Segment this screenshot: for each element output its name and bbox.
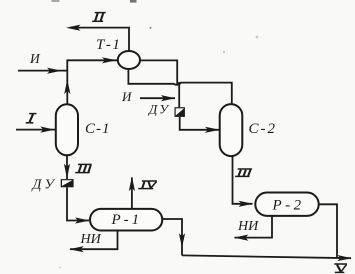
arrowhead left НИ 1 — [69, 246, 84, 252]
vessel P-2 (horizontal stadium) — [255, 193, 318, 216]
speck near T-1 — [223, 51, 225, 53]
arrowhead right V end — [337, 255, 352, 261]
wire valve to P-1 — [67, 187, 89, 220]
speck near II line — [150, 27, 152, 29]
arrowhead И right before corner — [47, 68, 62, 74]
wire P-1 bottom to НИ — [70, 231, 118, 250]
arrowhead I into C-1 — [40, 127, 55, 133]
vessel T-1 (circle) — [118, 51, 140, 69]
svg-text:С-1: С-1 — [85, 121, 111, 137]
label numeral III near C-2 — [235, 169, 252, 176]
valve ДУ 2 (before C-2) — [175, 107, 185, 117]
label numeral I — [26, 114, 37, 123]
wire P-2 right output down to collector — [319, 204, 338, 258]
valve ДУ 1 (below C-1) — [61, 179, 74, 187]
faint smudge right of T-1 — [256, 36, 259, 39]
wire P-1 right output down — [162, 219, 182, 255]
arrowhead into P-1 left — [75, 217, 90, 223]
wire stream И feed into riser — [18, 70, 67, 72]
faint dot bottom — [59, 267, 61, 269]
svg-text:НИ: НИ — [237, 219, 259, 234]
wire valve 2 to C-2 side — [180, 117, 219, 130]
arrowhead into C-2 left — [205, 127, 220, 133]
wire bottom collector line to V — [182, 255, 351, 258]
label numeral V — [334, 264, 347, 272]
arrowhead down on P-1 output — [179, 233, 185, 248]
label numeral IV — [138, 181, 157, 189]
wire C-1 bottom to valve — [66, 155, 68, 179]
label numeral II — [92, 13, 106, 22]
svg-text:НИ: НИ — [80, 232, 102, 247]
arrowhead left НИ 2 — [234, 235, 249, 241]
wire stream I into C-1 — [16, 129, 56, 131]
svg-text:Р-2: Р-2 — [272, 198, 305, 214]
wire P-2 bottom to НИ — [235, 216, 273, 238]
svg-text:И: И — [121, 89, 132, 104]
wire P-1 top vent IV — [131, 178, 133, 209]
svg-text:С-2: С-2 — [249, 121, 278, 137]
vessel C-2 (vertical capsule) — [220, 104, 243, 156]
wire T-1 bottom to C-2 top — [128, 69, 231, 106]
arrowhead down above valve 1 — [64, 164, 70, 179]
wire T-1 right output down to valve 2 — [140, 60, 179, 107]
vessel P-1 (horizontal stadium) — [90, 209, 162, 231]
svg-text:И: И — [29, 51, 41, 66]
arrowhead up IV — [129, 177, 135, 192]
arrowhead И 2 — [161, 95, 176, 101]
wire riser from C-1 top to T-1 — [67, 60, 118, 104]
svg-text:ДУ: ДУ — [31, 178, 57, 193]
svg-text:ДУ: ДУ — [147, 102, 170, 117]
vessel C-1 (vertical capsule) — [56, 104, 78, 155]
arrowhead into P-2 left — [239, 201, 254, 207]
wire stream И into valve line — [140, 97, 175, 99]
wire C-2 bottom to P-2 — [233, 155, 253, 203]
svg-text:Р-1: Р-1 — [111, 212, 143, 228]
label numeral III near C-1 — [75, 164, 92, 172]
svg-text:Т-1: Т-1 — [96, 37, 121, 53]
wire stream II out of T-1 top — [70, 28, 129, 51]
speck top edge — [130, 0, 137, 3]
arrowhead up on C-1 riser — [64, 80, 70, 95]
arrowhead II left — [66, 25, 81, 31]
speck top edge 2 — [52, 0, 60, 2]
arrowhead into T-1 left — [102, 57, 117, 63]
